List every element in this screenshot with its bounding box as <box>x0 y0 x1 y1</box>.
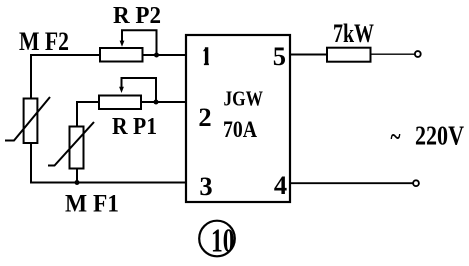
svg-text:5: 5 <box>273 41 286 71</box>
terminal: top AC supply <box>415 51 421 57</box>
potentiometer RP2 wiper path <box>122 30 157 55</box>
svg-text:R P1: R P1 <box>112 113 157 140</box>
svg-text:JGW: JGW <box>224 87 264 111</box>
potentiometer RP1 wiper arrowhead <box>119 87 124 93</box>
terminal: bottom AC supply <box>413 180 419 186</box>
svg-text:R P2: R P2 <box>113 2 161 29</box>
svg-text:M F2: M F2 <box>19 27 69 56</box>
svg-text:~: ~ <box>391 122 401 152</box>
svg-text:M F1: M F1 <box>65 191 119 218</box>
wire: bottom net to box pin 3 <box>30 182 186 184</box>
svg-text:7kW: 7kW <box>333 19 374 48</box>
wire: box pin 5 to heater resistor <box>290 54 327 56</box>
svg-text:10: 10 <box>211 223 235 260</box>
controller module U1 JGW 70A box <box>186 35 290 202</box>
potentiometer RP2 wiper arrowhead <box>120 41 125 47</box>
wire: RP1 row to box pin 2 <box>77 101 186 103</box>
thermistor MF2 body <box>24 99 38 144</box>
wire: node A row, MF2 top to box pin 1 <box>31 54 186 56</box>
wire: box pin 4 to bottom supply terminal <box>290 182 413 184</box>
svg-text:4: 4 <box>274 170 287 200</box>
figure number circle 10 <box>199 221 235 257</box>
resistor (heater) 7kW body <box>327 48 371 62</box>
wire: MF2 left vertical branch <box>30 54 32 184</box>
junction: RP1 wiper to pin2 net <box>154 100 159 105</box>
thermistor MF1 body <box>70 127 84 169</box>
svg-text:70A: 70A <box>223 117 257 142</box>
svg-text:220V: 220V <box>415 121 464 151</box>
thermistor MF2 diagonal stroke <box>5 97 50 141</box>
potentiometer RP1 wiper path <box>122 78 157 102</box>
potentiometer RP1 body <box>99 96 141 110</box>
svg-text:2: 2 <box>198 102 211 132</box>
thermistor MF1 diagonal stroke <box>48 122 94 166</box>
junction: MF1 bottom to bottom net <box>75 180 80 185</box>
pin 1 label <box>203 47 209 65</box>
wire: MF1 vertical branch <box>76 101 78 183</box>
potentiometer RP2 body <box>100 48 143 62</box>
wire: heater resistor to top supply terminal <box>371 53 415 55</box>
svg-text:3: 3 <box>199 171 212 201</box>
junction: RP2 wiper to pin1 net <box>154 53 159 58</box>
